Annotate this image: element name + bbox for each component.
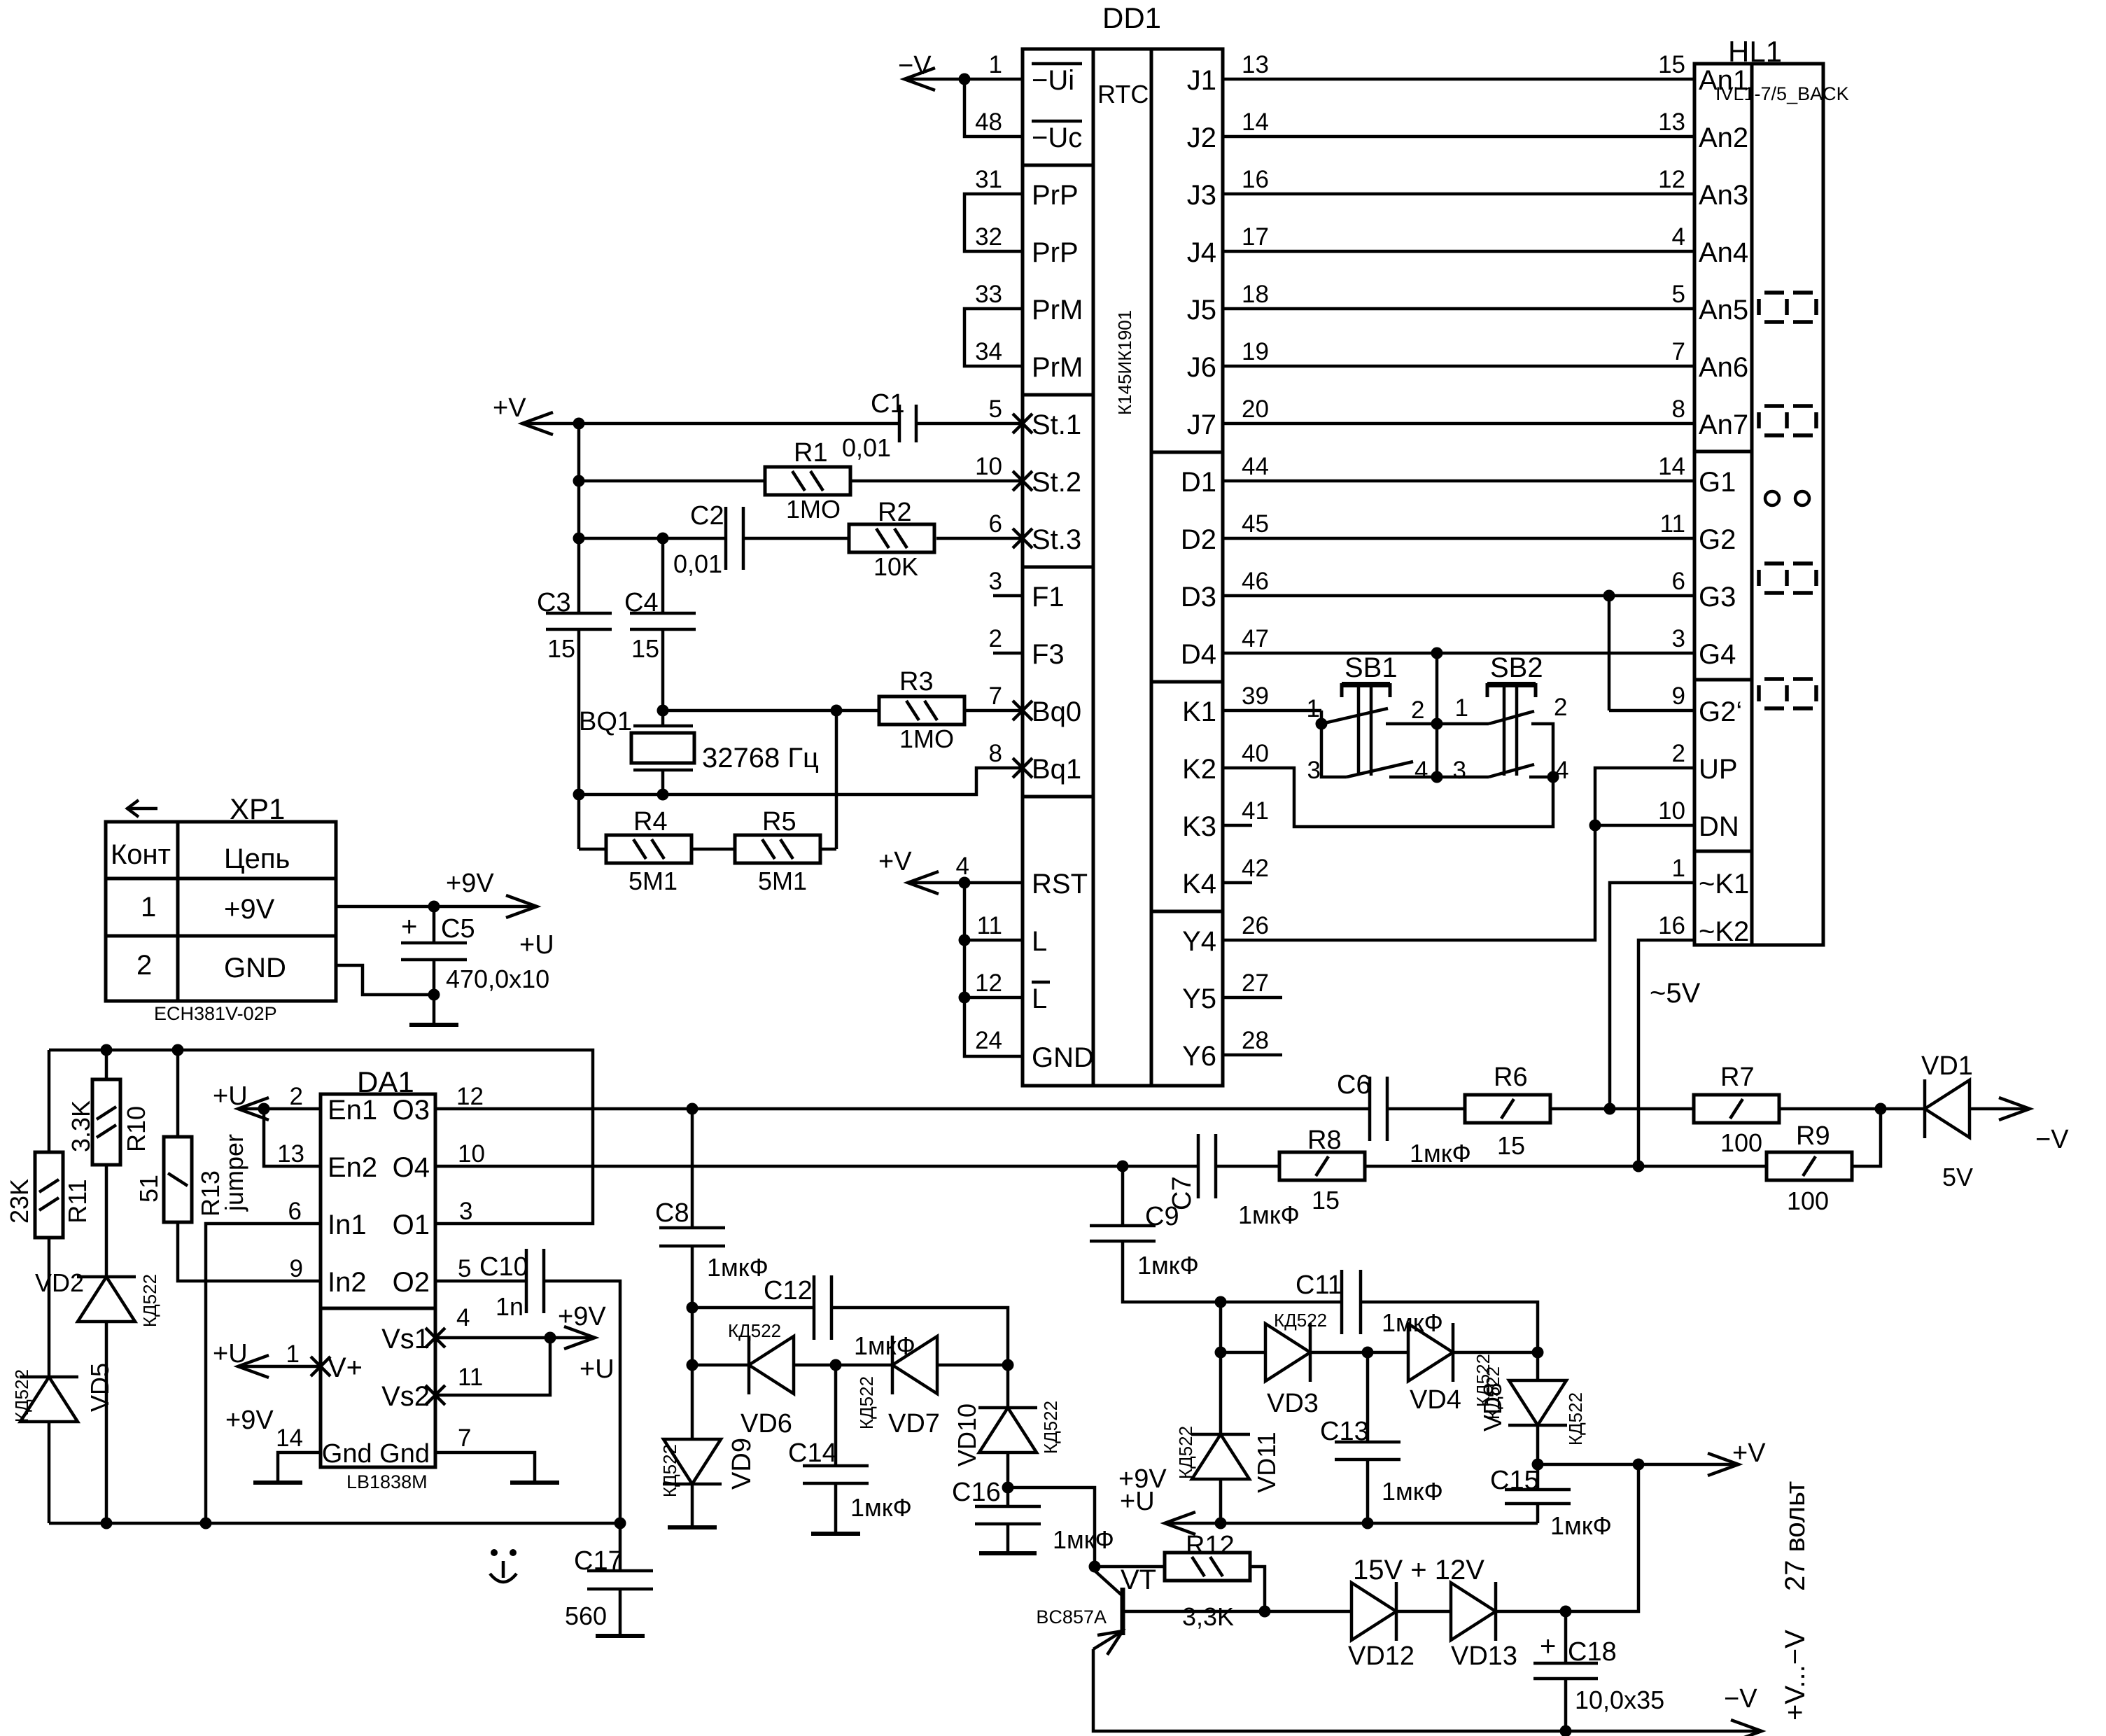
svg-text:1: 1	[1672, 855, 1685, 882]
diode VD8	[1473, 1354, 1586, 1445]
IC DD1 part number K145IK1901	[1114, 310, 1135, 415]
crystal BQ1	[579, 707, 819, 773]
svg-text:10: 10	[975, 453, 1002, 480]
push button SB1 blade upper	[1321, 708, 1388, 724]
svg-text:5: 5	[458, 1255, 471, 1282]
display HL1 seven-segment icon row An7	[1759, 406, 1816, 435]
svg-text:G2‘: G2‘	[1699, 696, 1742, 727]
junction VD7 anode node	[1002, 1359, 1014, 1371]
svg-text:+9V: +9V	[224, 894, 275, 925]
svg-text:10,0x35: 10,0x35	[1575, 1686, 1664, 1714]
svg-text:3: 3	[989, 568, 1002, 595]
svg-text:ECH381V-02P: ECH381V-02P	[154, 1003, 277, 1024]
push button SB2 body	[1487, 683, 1536, 776]
svg-text:~K2: ~K2	[1699, 916, 1749, 947]
capacitor C12	[764, 1275, 915, 1360]
wire C17 lead	[619, 1523, 622, 1571]
svg-text:КД522: КД522	[1565, 1392, 1586, 1445]
wire R6 to R7	[1550, 1107, 1694, 1111]
resistor R8	[1279, 1126, 1365, 1214]
svg-text:K1: K1	[1182, 696, 1216, 727]
svg-text:КД522: КД522	[139, 1274, 160, 1327]
junction O4/C9	[1117, 1161, 1129, 1172]
svg-text:DD1: DD1	[1102, 1, 1161, 34]
wire R13 to In2	[178, 1222, 321, 1281]
svg-text:19: 19	[1242, 338, 1269, 365]
svg-text:Vs2: Vs2	[381, 1381, 430, 1412]
wire R4 row	[579, 848, 836, 851]
wire O3 row	[435, 1107, 1465, 1111]
wire C8 column top	[691, 1109, 694, 1228]
capacitor C14	[788, 1438, 912, 1522]
svg-text:1мкФ: 1мкФ	[1238, 1200, 1300, 1229]
svg-text:7: 7	[1672, 338, 1685, 365]
svg-text:33: 33	[975, 281, 1002, 308]
wire C10 to ground rail	[544, 1281, 620, 1523]
wire base row to VD12	[1265, 1610, 1352, 1613]
wire VD8 to C15	[1536, 1425, 1540, 1464]
resistor R3	[879, 667, 964, 753]
wire C5 bottom lead	[433, 960, 436, 1025]
push button SB2 pin3 wire	[1437, 776, 1489, 779]
svg-text:10: 10	[458, 1140, 485, 1168]
svg-text:КД522: КД522	[659, 1444, 680, 1497]
svg-text:D1: D1	[1181, 467, 1216, 498]
svg-text:14: 14	[276, 1424, 303, 1452]
svg-text:R5: R5	[762, 807, 796, 836]
svg-text:Vs1: Vs1	[381, 1324, 430, 1354]
svg-text:+V...−V: +V...−V	[1780, 1630, 1811, 1721]
svg-text:45: 45	[1242, 510, 1269, 538]
junction C5 bottom	[428, 989, 440, 1001]
svg-text:15: 15	[547, 634, 575, 663]
svg-text:+U: +U	[1120, 1487, 1155, 1516]
svg-text:LB1838M: LB1838M	[346, 1471, 428, 1492]
resistor R6	[1465, 1063, 1550, 1160]
wire St.3 row	[579, 537, 1023, 540]
svg-text:13: 13	[277, 1140, 304, 1168]
wire C11 right to VD8 top	[1361, 1302, 1538, 1352]
resistor R5	[735, 807, 820, 895]
junction St.2 tap	[573, 475, 585, 487]
capacitor C6	[1337, 1070, 1471, 1168]
svg-text:Y5: Y5	[1182, 983, 1216, 1014]
svg-text:13: 13	[1242, 51, 1269, 78]
svg-text:КД522: КД522	[1274, 1310, 1327, 1331]
svg-text:En2: En2	[328, 1152, 377, 1183]
junction RST/L	[959, 877, 971, 889]
wire -Ui	[904, 78, 1023, 81]
svg-text:5M1: 5M1	[629, 867, 678, 895]
svg-text:6: 6	[1672, 568, 1685, 595]
display HL1 dot indicators	[1765, 491, 1809, 505]
svg-text:КД522: КД522	[856, 1376, 877, 1429]
wire VD1 to arrow	[1970, 1107, 2030, 1111]
svg-text:7: 7	[989, 682, 1002, 710]
svg-text:R6: R6	[1494, 1063, 1528, 1092]
IC DD1 right pin numbers	[1242, 51, 1269, 1054]
svg-text:VD10: VD10	[953, 1403, 981, 1466]
svg-text:1мкФ: 1мкФ	[850, 1493, 912, 1522]
capacitor C1	[842, 389, 916, 462]
capacitor C10	[479, 1249, 544, 1321]
svg-text:42: 42	[1242, 855, 1269, 882]
wire C17 bottom lead	[619, 1589, 622, 1636]
svg-text:5: 5	[1672, 281, 1685, 308]
junction C12 left	[687, 1302, 699, 1314]
push button SB2 pin1 wire	[1437, 722, 1489, 726]
svg-text:C13: C13	[1320, 1417, 1369, 1446]
svg-text:VD13: VD13	[1451, 1641, 1517, 1671]
wire D3-G3	[1223, 594, 1694, 598]
svg-text:4: 4	[1672, 223, 1685, 251]
connector XP1 row 2	[136, 950, 286, 983]
svg-text:3.3K: 3.3K	[66, 1100, 95, 1152]
svg-text:VD3: VD3	[1267, 1389, 1319, 1418]
wire C16 leads	[1006, 1487, 1010, 1553]
wire VD9 lead	[691, 1365, 694, 1439]
svg-text:100: 100	[1787, 1186, 1829, 1215]
net label +V...-V	[1780, 1630, 1811, 1721]
wire J5-An5	[1223, 307, 1694, 311]
junction R12/base row	[1259, 1606, 1271, 1618]
svg-text:K2: K2	[1182, 754, 1216, 785]
connector XP1 row 1	[141, 892, 275, 925]
svg-text:1мкФ: 1мкФ	[1137, 1251, 1199, 1280]
push button SB2 pin4 stub	[1529, 776, 1553, 779]
junction node ~K1/R6/R7	[1604, 1103, 1616, 1115]
svg-text:−Ui: −Ui	[1032, 65, 1074, 96]
push button SB1 body	[1342, 683, 1390, 776]
wire GND from XP1	[336, 965, 434, 995]
svg-text:C5: C5	[441, 914, 475, 944]
connector XP1 part number	[154, 1003, 277, 1024]
diode VD9	[659, 1438, 757, 1497]
junction +V/C18 riser	[1633, 1459, 1645, 1471]
junction rail/C17	[615, 1518, 626, 1529]
ground bar C17	[596, 1634, 645, 1638]
capacitor C15	[1490, 1466, 1612, 1540]
wire VD10 lead	[1006, 1365, 1010, 1408]
junction VT collector node	[1089, 1561, 1101, 1573]
wire Y5 stub	[1223, 996, 1282, 1000]
svg-text:An2: An2	[1699, 122, 1748, 153]
svg-text:O2: O2	[393, 1267, 430, 1298]
resistor R4	[606, 807, 692, 895]
svg-text:6: 6	[989, 510, 1002, 538]
wire C14 to ground	[834, 1483, 838, 1534]
resistor R7	[1694, 1063, 1779, 1157]
svg-text:PrP: PrP	[1032, 237, 1079, 268]
net arrow +9V at Vs1	[558, 1302, 615, 1384]
svg-text:C18: C18	[1568, 1637, 1617, 1667]
junction D4 riser top	[1431, 647, 1443, 659]
net label ~5V	[1650, 978, 1701, 1009]
svg-text:2: 2	[136, 950, 152, 981]
push button SB1 pin3 wire	[1321, 724, 1347, 777]
svg-text:6: 6	[288, 1198, 302, 1225]
svg-text:R1: R1	[794, 438, 828, 468]
junction D4/SB1-2	[1431, 718, 1443, 730]
svg-text:Цепь: Цепь	[224, 843, 290, 874]
svg-text:+U: +U	[213, 1339, 248, 1368]
wire F1 stub	[993, 594, 1023, 598]
svg-text:D2: D2	[1181, 524, 1216, 555]
wire C18 bottom lead	[1564, 1679, 1568, 1731]
resistor R10	[66, 1079, 150, 1165]
wire +U rail above DA1	[49, 1050, 593, 1224]
net arrow +U at En1	[213, 1081, 269, 1120]
svg-text:F3: F3	[1032, 639, 1065, 670]
push button SB2 blade upper	[1489, 711, 1534, 724]
wire C12 right to VD7 row	[831, 1308, 1008, 1365]
svg-text:An5: An5	[1699, 295, 1748, 325]
svg-text:15V + 12V: 15V + 12V	[1353, 1555, 1484, 1585]
connector XP1 orientation arrow	[127, 800, 157, 817]
svg-text:PrM: PrM	[1032, 295, 1083, 325]
svg-text:GND: GND	[224, 953, 286, 983]
display HL1 seven-segment icon row G3	[1759, 563, 1816, 593]
svg-text:48: 48	[975, 108, 1002, 136]
svg-text:C1: C1	[871, 389, 905, 419]
junction node D3/G2'	[1603, 590, 1615, 602]
wire C18 top lead	[1564, 1611, 1568, 1663]
svg-text:C17: C17	[574, 1546, 623, 1576]
wire C4 column	[661, 538, 665, 613]
wire K3 stub	[1223, 824, 1252, 827]
wire +U row	[1165, 1522, 1538, 1525]
svg-text:15: 15	[1658, 51, 1685, 78]
net arrow +V right	[1708, 1438, 1766, 1476]
wire C13 to +U row	[1366, 1459, 1370, 1523]
svg-text:Gnd Gnd: Gnd Gnd	[322, 1439, 430, 1469]
wire VD9 to ground	[691, 1484, 694, 1527]
ground bar C16	[979, 1551, 1037, 1555]
svg-text:BQ1: BQ1	[579, 707, 632, 736]
connector XP1 designator	[230, 792, 285, 825]
net arrow +U at V+	[213, 1339, 274, 1435]
svg-text:12: 12	[975, 969, 1002, 997]
junction O3/C8	[687, 1103, 699, 1115]
diode VD12	[1348, 1582, 1414, 1671]
junction C15 top node	[1532, 1459, 1544, 1471]
svg-text:12: 12	[1658, 166, 1685, 193]
svg-text:−V: −V	[1724, 1684, 1757, 1714]
svg-text:8: 8	[989, 740, 1002, 767]
wire L stub	[964, 939, 1023, 942]
svg-text:Bq0: Bq0	[1032, 696, 1081, 727]
svg-text:4: 4	[1555, 757, 1568, 784]
svg-text:J6: J6	[1187, 352, 1216, 383]
wire R11 to VD5	[48, 1238, 51, 1377]
svg-text:1мкФ: 1мкФ	[1382, 1308, 1443, 1337]
wire O2 to C10	[435, 1280, 526, 1283]
junction St.3 tap	[573, 533, 585, 545]
svg-text:1: 1	[1455, 694, 1468, 722]
svg-text:C10: C10	[479, 1252, 528, 1282]
wire ground rail under DA1	[49, 1522, 620, 1525]
wire Lbar stub	[964, 996, 1023, 1000]
svg-text:26: 26	[1242, 912, 1269, 939]
junction VD3/VD4/C13	[1362, 1347, 1374, 1359]
svg-text:+9V: +9V	[558, 1302, 606, 1331]
wire G2' riser from D3	[1609, 596, 1694, 710]
capacitor C9	[1090, 1202, 1199, 1280]
ground bar C14	[811, 1532, 860, 1536]
svg-text:R8: R8	[1307, 1126, 1342, 1155]
junction +U/C13	[1362, 1518, 1374, 1529]
pin check marks DA1 V+ Vs1 Vs2	[311, 1328, 445, 1405]
svg-text:+9V: +9V	[225, 1406, 274, 1435]
junction rail/In1 riser	[200, 1518, 212, 1529]
wire VD11 to +U row	[1219, 1479, 1223, 1523]
diode VD4	[1408, 1323, 1503, 1420]
IC DA1 pin numbers	[276, 1083, 485, 1452]
svg-text:3,3K: 3,3K	[1182, 1602, 1234, 1631]
wire VT emitter to -V rail	[1093, 1649, 1762, 1731]
wire Bq0 row	[663, 709, 1023, 713]
svg-text:1мкФ: 1мкФ	[1550, 1511, 1612, 1540]
svg-text:20: 20	[1242, 395, 1269, 423]
svg-text:PrM: PrM	[1032, 352, 1083, 383]
svg-text:−V: −V	[898, 51, 932, 80]
svg-text:An6: An6	[1699, 352, 1748, 383]
svg-text:3: 3	[1672, 625, 1685, 652]
wire K4 stub	[1223, 881, 1252, 885]
wire PrP bracket pins 31-32	[964, 194, 1023, 251]
diode VD7	[856, 1336, 940, 1438]
wire R12 right to base row	[1250, 1567, 1265, 1611]
svg-text:32: 32	[975, 223, 1002, 251]
diode VD10	[953, 1401, 1061, 1466]
svg-text:R9: R9	[1796, 1121, 1830, 1151]
capacitor C7	[1167, 1134, 1300, 1229]
net label 27 volt	[1780, 1481, 1811, 1591]
svg-text:11: 11	[458, 1364, 483, 1391]
diode VD1	[1921, 1051, 1973, 1191]
resistor R1	[765, 438, 850, 524]
svg-text:+V: +V	[1732, 1438, 1766, 1468]
pin check marks on DD1 St.1 St.2 St.3 Bq0 Bq1	[1013, 414, 1032, 778]
svg-text:G3: G3	[1699, 582, 1736, 612]
svg-text:12: 12	[456, 1083, 484, 1110]
wire C5 top lead	[433, 906, 436, 943]
svg-text:J1: J1	[1187, 65, 1216, 96]
junction +U/VD11	[1215, 1518, 1227, 1529]
IC DD1 outline	[1023, 49, 1223, 1086]
svg-text:C15: C15	[1490, 1466, 1539, 1495]
svg-text:15: 15	[1312, 1186, 1340, 1214]
wire R11 column top	[48, 1050, 51, 1152]
wire VD8 lead	[1536, 1352, 1540, 1380]
net arrow -V bottom	[1724, 1684, 1762, 1736]
wire Gnd pin14	[278, 1452, 321, 1483]
wire St.2 row	[579, 479, 1023, 483]
junction D4/SB1-4	[1431, 771, 1443, 783]
junction VD6/VD7/C14	[830, 1359, 842, 1371]
transistor VT BC857A	[1036, 1564, 1156, 1655]
svg-text:C4: C4	[624, 588, 659, 617]
svg-text:51: 51	[134, 1175, 163, 1203]
svg-text:R2: R2	[878, 498, 912, 527]
junction SB1 pin1	[1316, 718, 1328, 730]
svg-text:К145ИК1901: К145ИК1901	[1114, 310, 1135, 415]
junction C16 node	[1002, 1482, 1014, 1494]
wire VD5 to rail	[48, 1422, 51, 1523]
wire C8 to C12 row	[691, 1246, 694, 1308]
svg-text:An3: An3	[1699, 180, 1748, 211]
svg-text:J4: J4	[1187, 237, 1216, 268]
junction VD6 cathode node	[687, 1359, 699, 1371]
svg-text:2: 2	[1411, 696, 1424, 724]
svg-text:−V: −V	[2035, 1125, 2069, 1154]
ground bar DA1 pin7	[510, 1480, 559, 1485]
wire VD12 to VD13	[1396, 1610, 1451, 1613]
capacitor C18 polarized	[1533, 1631, 1664, 1714]
svg-text:C6: C6	[1337, 1070, 1371, 1100]
svg-text:J7: J7	[1187, 409, 1216, 440]
svg-text:1мкФ: 1мкФ	[1382, 1477, 1443, 1506]
wire C9 column	[1121, 1166, 1125, 1226]
svg-text:~K1: ~K1	[1699, 869, 1749, 899]
svg-text:VD1: VD1	[1921, 1051, 1973, 1081]
net arrow -V at DD1 pin 1	[898, 51, 935, 90]
svg-text:D3: D3	[1181, 582, 1216, 612]
capacitor C13	[1320, 1417, 1443, 1506]
svg-text:34: 34	[975, 338, 1002, 365]
svg-text:C2: C2	[690, 501, 724, 531]
wire F3 stub	[993, 652, 1023, 655]
svg-text:An7: An7	[1699, 409, 1748, 440]
wire C15 leads	[1536, 1464, 1540, 1523]
svg-text:+V: +V	[878, 847, 912, 876]
svg-text:4: 4	[1414, 757, 1428, 784]
resistor R13	[134, 1134, 248, 1222]
svg-text:10K: 10K	[873, 552, 918, 581]
svg-text:3: 3	[459, 1198, 472, 1225]
svg-text:XP1: XP1	[230, 792, 285, 825]
net arrow +9V +U at pump	[1118, 1464, 1195, 1534]
svg-text:J5: J5	[1187, 295, 1216, 325]
net arrow -V right	[1999, 1098, 2069, 1154]
svg-text:32768 Гц: 32768 Гц	[702, 743, 819, 773]
wire C3 bottom	[577, 629, 581, 794]
svg-text:27: 27	[1242, 969, 1269, 997]
wire C4 to crystal	[661, 629, 665, 726]
resistor R9	[1767, 1121, 1852, 1215]
svg-text:G2: G2	[1699, 524, 1736, 555]
svg-text:RTC: RTC	[1097, 80, 1149, 108]
resistor R12	[1165, 1531, 1250, 1631]
svg-text:Y4: Y4	[1182, 926, 1216, 957]
svg-text:DA1: DA1	[357, 1065, 414, 1098]
diode VD3	[1265, 1310, 1327, 1418]
svg-text:J2: J2	[1187, 122, 1216, 153]
wire crystal bottom	[661, 770, 665, 794]
wire ~K1 to C6 node	[1610, 883, 1694, 1108]
wire VT base	[1123, 1610, 1265, 1613]
svg-text:46: 46	[1242, 568, 1269, 595]
junction rail/R10	[101, 1044, 113, 1056]
svg-text:K4: K4	[1182, 869, 1216, 899]
svg-text:1n: 1n	[496, 1292, 524, 1321]
svg-text:St.1: St.1	[1032, 409, 1081, 440]
junction Y4/DN	[1589, 820, 1601, 832]
wire R5 riser	[835, 710, 838, 849]
junction L tap	[959, 934, 971, 946]
wire C11 row	[1221, 1301, 1342, 1304]
svg-text:C9: C9	[1145, 1202, 1179, 1231]
